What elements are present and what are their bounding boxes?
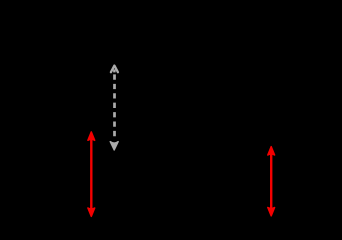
arrowhead down: [88, 208, 95, 216]
arrowhead up: [268, 147, 275, 155]
dashed gray double-headed arrow (equilibrium displacement): [110, 66, 118, 150]
wire: dashed shaft: [113, 74, 116, 136]
arrowhead up (open chevron): [111, 66, 118, 73]
wire: dash fragment below chevron: [113, 69, 116, 72]
right red double-headed amplitude arrow: [268, 147, 275, 216]
wire: shaft: [270, 152, 272, 211]
arrowhead down: [268, 208, 275, 216]
arrowhead down (filled): [110, 142, 118, 150]
arrowhead up: [88, 132, 95, 140]
wire: shaft: [90, 137, 92, 211]
left red double-headed amplitude arrow: [88, 132, 95, 217]
